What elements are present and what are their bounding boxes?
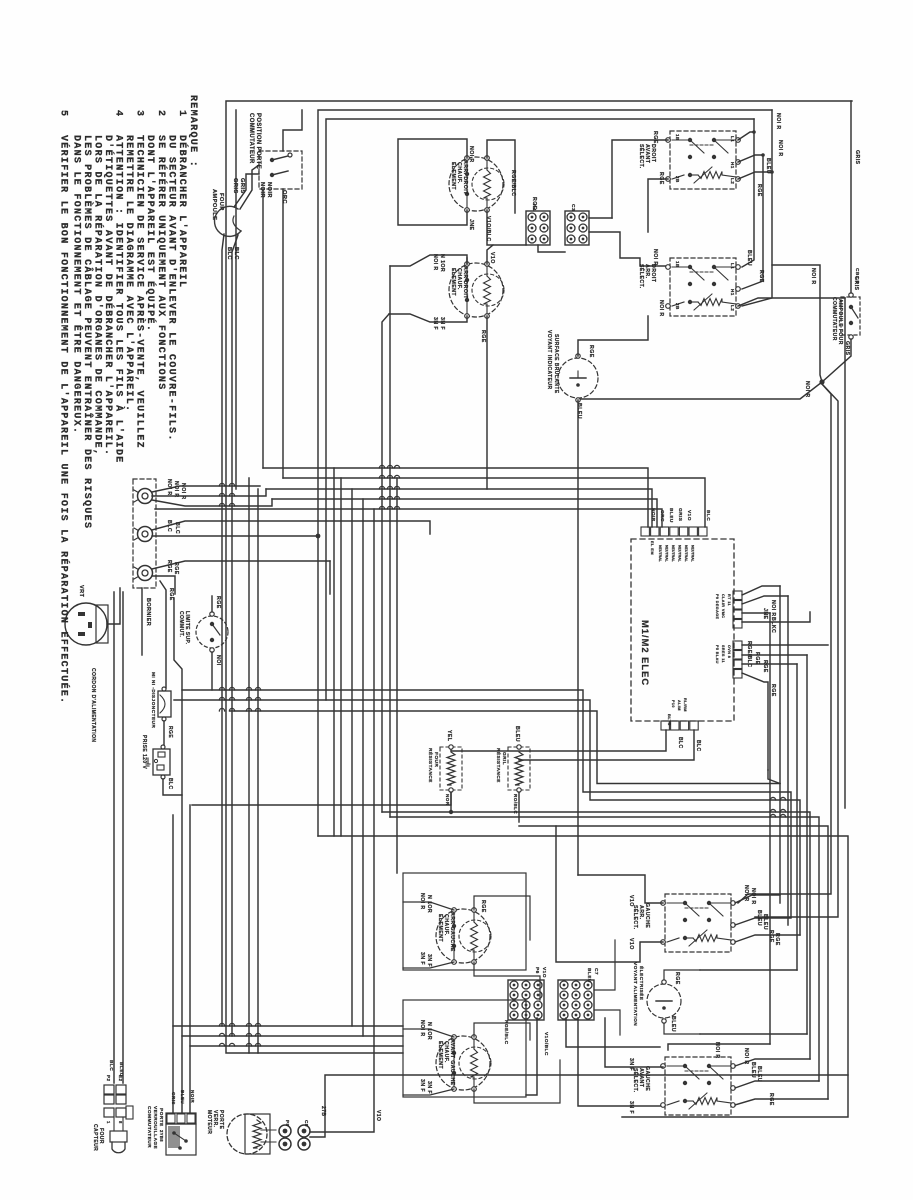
- wire: P9 pin1 diag noir: [742, 586, 780, 595]
- svg-text:VOYANT INDICATEUR: VOYANT INDICATEUR: [546, 330, 552, 390]
- svg-text:NOIR: NOIR: [190, 1090, 195, 1103]
- wire: resistance four bottom: [450, 792, 452, 812]
- svg-text:BLEU: BLEU: [762, 914, 768, 930]
- svg-text:GRIS: GRIS: [171, 1092, 176, 1105]
- wire from trunkB down x 330: [329, 561, 331, 594]
- svg-text:DÉBRANCHER L'APPAREIL: DÉBRANCHER L'APPAREIL: [176, 135, 190, 288]
- svg-text:BLEU: BLEU: [750, 1062, 756, 1078]
- wire: P5 pin1 rge/blc: [742, 644, 828, 646]
- svg-text:NOI R: NOI R: [770, 600, 776, 617]
- svg-text:P8: P8: [285, 1120, 290, 1126]
- element box: arriere gauche: [403, 873, 526, 970]
- svg-text:FOUR: FOUR: [433, 752, 439, 767]
- wires: blc x2 from terminal: [152, 521, 430, 534]
- selector: arriere gauche switch: [665, 894, 731, 952]
- svg-text:CLAIR VMC: CLAIR VMC: [721, 594, 725, 618]
- wire: M1 bottom pin1 down-left yel: [451, 730, 666, 751]
- terminal rge: [138, 566, 153, 581]
- svg-text:RGE: RGE: [756, 184, 762, 197]
- wire: right bus vertical 845: [844, 298, 846, 808]
- plug: cordon d'alimentation: [65, 603, 107, 645]
- svg-text:NOI R: NOI R: [775, 113, 781, 130]
- wire: third top line: [326, 119, 754, 700]
- verticals from M1 wires down the right side: [769, 613, 771, 1044]
- wire: element AR droit loop left: [398, 139, 467, 225]
- wire: selector1 left pins: [612, 140, 668, 218]
- svg-text:CORDON D'ALIMENTATION: CORDON D'ALIMENTATION: [90, 668, 96, 742]
- svg-text:DROIT: DROIT: [650, 264, 656, 283]
- svg-text:JNE: JNE: [468, 219, 474, 231]
- wire: element2 bottom right rge down: [486, 316, 488, 489]
- bottom trunk bumps: [219, 1023, 224, 1026]
- svg-text:GRIL: GRIL: [501, 752, 507, 765]
- wire: P9 pin2 diag noir: [742, 596, 788, 604]
- svg-text:RGE/BLC: RGE/BLC: [510, 170, 516, 197]
- wire: right bus vertical 831 from junction: [738, 384, 831, 903]
- svg-text:OVN 8: OVN 8: [727, 645, 731, 658]
- svg-text:COMMUTATEUR: COMMUTATEUR: [146, 1106, 152, 1148]
- svg-text:P9 DEGAGE: P9 DEGAGE: [715, 594, 719, 619]
- wire: inter-selector vertical 763: [742, 155, 763, 289]
- svg-text:PRISE 120 V: PRISE 120 V: [141, 735, 147, 769]
- svg-text:ARR. DROIT: ARR. DROIT: [462, 160, 468, 195]
- outlet: prise 120 V: [153, 749, 170, 775]
- svg-text:2: 2: [155, 110, 166, 117]
- wire: selector1 right pin L2: [738, 172, 772, 179]
- svg-text:3N F: 3N F: [439, 317, 445, 330]
- svg-text:C7: C7: [593, 968, 599, 975]
- svg-text:BORNIER: BORNIER: [145, 598, 151, 626]
- indicator: voyant alimentation electrisee: [647, 984, 681, 1018]
- svg-text:V1O: V1O: [541, 967, 547, 978]
- element: chauffant arriere droit (circle with coil): [449, 157, 503, 211]
- wire: P9 pin4 blanc: [742, 612, 810, 622]
- terminal noir: [138, 489, 153, 504]
- wire: P5 pin3 rge: [742, 663, 797, 665]
- wire: conn12#1 to element AVG: [490, 1018, 537, 1095]
- svg-text:ORC: ORC: [281, 190, 287, 204]
- wires from conn12 right: [594, 940, 615, 990]
- svg-text:NEUTRAL: NEUTRAL: [658, 545, 662, 563]
- svg-text:RT 11: RT 11: [727, 594, 731, 606]
- svg-text:BLEU: BLEU: [756, 910, 762, 926]
- wire: v1o up from motor line: [373, 1103, 375, 1132]
- svg-text:RGE: RGE: [167, 726, 173, 738]
- svg-text:NOI R: NOI R: [419, 893, 425, 910]
- wire: vertical 142 from bornier: [114, 588, 142, 660]
- svg-text:BLEU: BLEU: [756, 1066, 762, 1082]
- resistor: resistance gril: [508, 747, 530, 790]
- svg-text:BLC: BLC: [108, 1060, 114, 1071]
- wire: P5 pin4 rge diag: [742, 673, 768, 770]
- wire: right bus vertical 838 from junction: [755, 384, 838, 917]
- svg-text:DU SECTEUR AVANT D'ENLEVER LE: DU SECTEUR AVANT D'ENLEVER LE COUVRE-FIL…: [165, 135, 177, 442]
- svg-text:D'ÉTIQUETTES AVANT DE DÉBRANCH: D'ÉTIQUETTES AVANT DE DÉBRANCHER L'APPAR…: [102, 135, 116, 456]
- wire: element2 noir labels wires: [466, 258, 468, 264]
- svg-text:BLEU: BLEU: [668, 508, 674, 523]
- svg-text:LIMITE SUP.: LIMITE SUP.: [184, 611, 190, 645]
- wire: lamp switch bottom diagonal to junction: [822, 339, 851, 382]
- svg-text:BLTS: BLTS: [667, 714, 672, 726]
- svg-text:EL EM: EL EM: [650, 541, 655, 555]
- svg-text:3N F: 3N F: [628, 1101, 634, 1114]
- switch: commut limite sup (thermal limit): [196, 616, 228, 648]
- wire: resistance gril bottom: [518, 792, 520, 822]
- svg-text:P2: P2: [106, 1075, 111, 1081]
- wire: element2 bottom-left out: [389, 314, 467, 322]
- wire: vertical 114 capteur: [113, 592, 115, 1083]
- connector: P2/E2 (2-pin): [104, 1085, 114, 1094]
- svg-text:NOI: NOI: [215, 655, 221, 666]
- wire: junction to left trunk: [581, 382, 822, 399]
- switch: commutateur ampoule four: [841, 297, 860, 335]
- wire: noir wire to junction: [772, 265, 822, 382]
- wire: door switch lower pin down: [262, 189, 264, 468]
- svg-text:RGE: RGE: [768, 930, 774, 943]
- wire: ampoule to door switch area (gris): [240, 165, 259, 209]
- selector: avant droit (top selector switch): [670, 131, 736, 189]
- wire: vertical 123 capteur: [122, 592, 124, 1083]
- switch: commutateur position porte box: [259, 151, 302, 189]
- wire: vertical 374 to motor: [310, 1046, 374, 1132]
- bumps trunk C: [770, 797, 775, 800]
- svg-text:RGE: RGE: [658, 172, 664, 185]
- svg-text:CAPTEUR: CAPTEUR: [92, 1124, 98, 1151]
- svg-text:2B: 2B: [675, 303, 680, 310]
- svg-text:COMMUTATEUR: COMMUTATEUR: [248, 113, 254, 164]
- svg-text:SRES 11: SRES 11: [721, 645, 725, 663]
- svg-text:3N F: 3N F: [628, 1058, 634, 1071]
- svg-text:RGE: RGE: [168, 588, 174, 601]
- svg-text:L1: L1: [730, 136, 735, 142]
- svg-text:ATTENTION : IDENTIFIER TOUS LE: ATTENTION : IDENTIFIER TOUS LES FILS À L…: [112, 135, 126, 464]
- connector: P4 (6-pin): [526, 211, 550, 245]
- wire: second top line: [318, 110, 772, 836]
- verticals mid connecting trunks: [351, 489, 353, 1026]
- connector: C6 (12-pin): [558, 980, 594, 1020]
- svg-text:3N F: 3N F: [419, 952, 425, 965]
- svg-text:VOYANT ALIMENTATION: VOYANT ALIMENTATION: [632, 962, 638, 1026]
- svg-text:V1O: V1O: [375, 1110, 381, 1121]
- wire: plug to bornier: [107, 588, 120, 624]
- svg-text:AMPOULE FOUR: AMPOULE FOUR: [837, 299, 843, 345]
- connector: P6 (12-pin): [508, 980, 544, 1020]
- svg-text:RGE: RGE: [754, 652, 760, 665]
- svg-text:ARR.: ARR.: [638, 905, 644, 920]
- wires element AVG: [403, 1029, 454, 1037]
- wire: element2 top right v1o: [487, 245, 493, 264]
- svg-text:LES PROBLÈMES DE CÂBLAGE PEUVE: LES PROBLÈMES DE CÂBLAGE PEUVENT ENTRAÎN…: [81, 135, 95, 529]
- terminal block bornier dashed box: [133, 479, 156, 588]
- svg-text:YEL: YEL: [446, 730, 452, 742]
- wire: limite sup top rge: [212, 561, 330, 612]
- connector: E3/P3: [104, 1108, 114, 1117]
- svg-text:N 1OR: N 1OR: [426, 1022, 432, 1040]
- wire: limite sup bottom: [211, 652, 213, 690]
- svg-text:BLC: BLC: [226, 247, 232, 260]
- svg-text:L1: L1: [730, 263, 735, 269]
- svg-text:V1O: V1O: [686, 510, 692, 521]
- wire: ampoule right down (blc): [232, 235, 238, 1036]
- svg-text:ARR DROIT: ARR DROIT: [462, 266, 468, 299]
- svg-text:NOI R: NOI R: [658, 300, 664, 317]
- terminal blc: [138, 527, 153, 542]
- svg-text:ARR GAUCHE: ARR GAUCHE: [449, 912, 455, 952]
- wire: voyant top rge: [578, 316, 648, 356]
- svg-text:CHAUF.: CHAUF.: [456, 268, 462, 290]
- wire: voyant2 bottom bleu: [664, 1023, 700, 1034]
- svg-text:CHAUF.: CHAUF.: [443, 914, 449, 936]
- svg-text:NEUTRAL: NEUTRAL: [678, 545, 682, 563]
- wire: lamp switch top to frame: [850, 101, 852, 293]
- svg-text:VERR.: VERR.: [212, 1110, 218, 1128]
- wire: selector1 right pin H1: [738, 155, 763, 162]
- svg-text:FOUR: FOUR: [218, 193, 224, 211]
- svg-text:RGE: RGE: [531, 197, 537, 210]
- svg-text:ALIM: ALIM: [677, 700, 681, 711]
- wire: nest feeder 768: [768, 770, 780, 784]
- svg-text:1B: 1B: [675, 134, 680, 141]
- wire: door switch to frame: [283, 110, 302, 151]
- resistor: resistance four (dashed box + zigzag): [440, 747, 462, 790]
- svg-text:CHAUF.: CHAUF.: [443, 1041, 449, 1063]
- wire: element2 left rail down: [389, 266, 391, 817]
- wire: blc down from terminal2: [144, 542, 146, 560]
- wire: selector2 right pin L2 to bus 845: [738, 298, 845, 306]
- wire: selector1 right pin L1 diag: [738, 132, 754, 140]
- connector: M1 right P5 (4 pins): [733, 641, 742, 650]
- lamp: ampoule four circle: [215, 206, 241, 236]
- contact dots commutateur position porte: [270, 158, 274, 162]
- svg-text:DANS LE FONCTIONNEMENT ET ÊTRE: DANS LE FONCTIONNEMENT ET ÊTRE DANGEREUX…: [70, 135, 84, 434]
- element: arriere gauche circle: [436, 909, 490, 963]
- svg-text:BLC: BLC: [166, 520, 172, 532]
- svg-text:BLEU: BLEU: [118, 1062, 124, 1077]
- svg-text:COMMUTATEUR: COMMUTATEUR: [831, 297, 837, 341]
- svg-text:NOI R: NOI R: [743, 885, 749, 902]
- wire: element AR droit bottom right down to connector: [487, 210, 526, 245]
- svg-text:COMMUT.: COMMUT.: [178, 611, 184, 638]
- element box: avant gauche: [403, 1000, 526, 1097]
- svg-text:RGE: RGE: [652, 131, 658, 144]
- svg-text:SE RÉFÉRER UNIQUEMENT AUX FONC: SE RÉFÉRER UNIQUEMENT AUX FONCTIONS: [155, 135, 169, 391]
- svg-text:NOIR: NOIR: [259, 182, 265, 198]
- svg-text:C8: C8: [304, 1120, 309, 1127]
- svg-text:RGE: RGE: [768, 1093, 774, 1106]
- svg-text:ELEMENT: ELEMENT: [450, 268, 456, 296]
- connector: M1 top row (7 pins): [641, 527, 649, 536]
- svg-text:AVANT GAUCHE: AVANT GAUCHE: [449, 1039, 455, 1086]
- svg-text:L2: L2: [730, 305, 735, 311]
- svg-text:RGE: RGE: [770, 684, 776, 697]
- svg-text:ELEMENT: ELEMENT: [437, 1041, 443, 1069]
- switch block: commutateur verrouillage porte: [166, 1113, 196, 1124]
- wire: ampoule to door switch second gris: [234, 174, 259, 207]
- svg-text:BLC: BLC: [705, 510, 711, 521]
- svg-text:1: 1: [176, 110, 187, 117]
- wire: selector4 top noir: [668, 1044, 770, 1050]
- svg-text:AVANT: AVANT: [644, 144, 650, 164]
- svg-text:M1/M2 ELEC: M1/M2 ELEC: [640, 620, 650, 686]
- svg-text:RGE: RGE: [674, 972, 680, 985]
- sensor: capteur four bulb: [110, 1131, 127, 1142]
- wire: door switch second pin down: [282, 189, 284, 478]
- wires: rge x2 from terminal: [152, 561, 330, 569]
- svg-text:RGE: RGE: [480, 330, 486, 343]
- svg-text:RGE: RGE: [480, 900, 486, 913]
- selector: arriere droit (second selector switch): [670, 258, 736, 316]
- svg-text:RO/BLC: RO/BLC: [513, 794, 518, 814]
- svg-text:RGE: RGE: [166, 560, 172, 573]
- svg-text:GRIS: GRIS: [232, 178, 238, 194]
- svg-text:NOI R: NOI R: [810, 268, 816, 285]
- svg-text:RGE/BLC: RGE/BLC: [746, 641, 752, 668]
- svg-text:V1O/BLC: V1O/BLC: [543, 1032, 549, 1056]
- svg-text:RGE: RGE: [215, 596, 221, 609]
- indicator: voyant surface brulante: [558, 358, 598, 398]
- trunk B wires (3) stair to nest: [182, 690, 791, 917]
- svg-text:NOI R: NOI R: [180, 483, 186, 500]
- svg-text:BLEU: BLEU: [514, 726, 520, 742]
- svg-text:N 1OR: N 1OR: [439, 254, 445, 272]
- svg-text:RGE: RGE: [173, 562, 179, 575]
- svg-text:DONT L'APPAREIL EST ÉQUIPÉ.: DONT L'APPAREIL EST ÉQUIPÉ.: [144, 135, 158, 332]
- wire: conn C3 right wires to selectors: [589, 217, 612, 219]
- svg-text:RGE: RGE: [758, 270, 764, 283]
- wire: ampoule left down (blc): [222, 234, 224, 1026]
- wire: conn P4 bottom to right: [538, 245, 565, 252]
- motor: moteur verrouillage porte: [227, 1114, 267, 1154]
- svg-text:3N F: 3N F: [419, 1079, 425, 1092]
- svg-text:BLC: BLC: [677, 737, 683, 749]
- svg-text:PORTE: PORTE: [218, 1110, 224, 1130]
- svg-text:PORTE: PORTE: [158, 1108, 164, 1127]
- svg-text:4: 4: [112, 110, 123, 117]
- svg-text:NOIR: NOIR: [650, 508, 656, 522]
- svg-text:ELEMENT: ELEMENT: [437, 914, 443, 942]
- svg-text:TECHNICIEN DE SERVICE APRÈS-VE: TECHNICIEN DE SERVICE APRÈS-VENTE, VEUIL…: [133, 135, 147, 449]
- wire: capteur to P3: [113, 1117, 115, 1131]
- wire: feeder 173 from left: [173, 814, 519, 816]
- breaker: mini-disjoncteur: [158, 691, 171, 717]
- svg-text:RGE/BLC: RGE/BLC: [503, 1020, 509, 1045]
- svg-text:V1O: V1O: [628, 895, 634, 907]
- svg-text:ORC: ORC: [659, 510, 665, 522]
- svg-text:GRIS: GRIS: [239, 178, 245, 194]
- wire: voyant2 top rge: [664, 970, 700, 980]
- wire: element2 top-left to left rail: [390, 255, 467, 266]
- svg-text:P5 BLAU: P5 BLAU: [715, 645, 719, 664]
- element: chauffant arriere droit inferieur: [449, 263, 503, 317]
- svg-text:NOI R: NOI R: [652, 249, 658, 266]
- svg-text:CHAUF.: CHAUF.: [456, 162, 462, 184]
- svg-text:NOI R: NOI R: [166, 479, 172, 496]
- element: avant gauche circle: [436, 1036, 490, 1090]
- svg-text:AMPOULE: AMPOULE: [211, 189, 217, 220]
- svg-text:NOI R: NOI R: [432, 254, 438, 271]
- svg-text:POSITION PORTE -: POSITION PORTE -: [255, 113, 261, 174]
- wire: C8 right then up 27B: [310, 1075, 852, 1137]
- svg-text:V1O: V1O: [489, 252, 495, 264]
- svg-text:1B: 1B: [675, 261, 680, 268]
- svg-text:BLC: BLC: [695, 740, 701, 752]
- svg-text:RL/RM: RL/RM: [683, 698, 687, 712]
- svg-text:GRIS: GRIS: [854, 150, 860, 165]
- svg-text:ELEMENT: ELEMENT: [450, 162, 456, 190]
- control module M1/M2 ELEC dashed box: [631, 539, 734, 721]
- svg-text:H1: H1: [730, 162, 735, 169]
- svg-text:5: 5: [57, 110, 68, 117]
- connector: C8 round pins: [298, 1125, 310, 1137]
- wire: voyant bottom bleu down to selector3: [577, 400, 579, 875]
- svg-text:NOI R: NOI R: [743, 1048, 749, 1065]
- verticals mid pairs: [333, 468, 335, 836]
- svg-text:V1O: V1O: [628, 938, 634, 950]
- svg-text:3N F: 3N F: [426, 954, 432, 967]
- ground symbol prise: [147, 758, 149, 764]
- svg-text:AVANT: AVANT: [638, 1068, 644, 1088]
- svg-text:REMARQUE :: REMARQUE :: [187, 95, 198, 168]
- trunk B bumps: [219, 687, 224, 690]
- svg-text:RGE: RGE: [774, 933, 780, 946]
- wire: selector3 left pins: [578, 875, 663, 903]
- svg-text:NEUTRAL: NEUTRAL: [684, 545, 688, 563]
- svg-text:BLEU: BLEU: [670, 1016, 676, 1032]
- svg-text:ARR.: ARR.: [644, 264, 650, 279]
- wire: voyant alim rge feeder: [700, 969, 797, 971]
- svg-text:BLC: BLC: [167, 778, 173, 790]
- wire: prise bottom blc return: [163, 598, 182, 795]
- wire: outer frame top-left run (gris): [226, 101, 852, 1053]
- wire: breaker to prise: [163, 721, 165, 746]
- selector: avant gauche switch: [665, 1057, 731, 1115]
- svg-text:NOI R: NOI R: [173, 481, 179, 498]
- svg-text:27B: 27B: [320, 1106, 326, 1116]
- svg-text:BLKC: BLKC: [770, 617, 776, 633]
- svg-text:MOTEUR: MOTEUR: [206, 1110, 212, 1134]
- trunk C nested corner wires: [767, 770, 769, 784]
- svg-text:NOIR: NOIR: [266, 182, 272, 198]
- connector: C3 (6-pin): [565, 211, 589, 245]
- trunk A wires (5): [263, 468, 648, 527]
- wire: element2 left rail2 down: [382, 314, 389, 812]
- wire: selector3 right pins: [735, 895, 780, 903]
- wire: left inner vertical: [235, 110, 237, 489]
- svg-text:NOI R: NOI R: [777, 140, 783, 157]
- connector: M1 right P9 (4 pins): [733, 591, 742, 600]
- svg-text:N 1OR: N 1OR: [426, 895, 432, 913]
- svg-text:NOI R: NOI R: [804, 381, 810, 398]
- svg-text:BLC: BLC: [174, 522, 180, 534]
- svg-text:P6: P6: [534, 967, 540, 974]
- svg-text:GRIS: GRIS: [844, 341, 850, 356]
- svg-text:C3: C3: [570, 204, 576, 211]
- svg-text:NEUTRAL: NEUTRAL: [671, 545, 675, 563]
- wire: inter-selector vertical 772: [742, 110, 772, 306]
- svg-text:NOI R: NOI R: [750, 888, 756, 905]
- svg-text:V1O/BLC: V1O/BLC: [485, 216, 491, 242]
- wire: rge terminal down to breaker: [160, 581, 166, 688]
- wire: P5 pin2 rge: [742, 654, 807, 656]
- svg-text:FOUR: FOUR: [98, 1128, 104, 1144]
- svg-text:3N F: 3N F: [426, 1081, 432, 1094]
- svg-text:BLEU: BLEU: [576, 403, 582, 419]
- connector: M1 bottom row (4 pins): [661, 721, 669, 730]
- svg-text:VERROUILLAGE: VERROUILLAGE: [152, 1106, 158, 1150]
- trunk A bumps: [379, 465, 384, 468]
- svg-text:3: 3: [133, 110, 144, 117]
- verticals crossing trunk B: [248, 478, 250, 1053]
